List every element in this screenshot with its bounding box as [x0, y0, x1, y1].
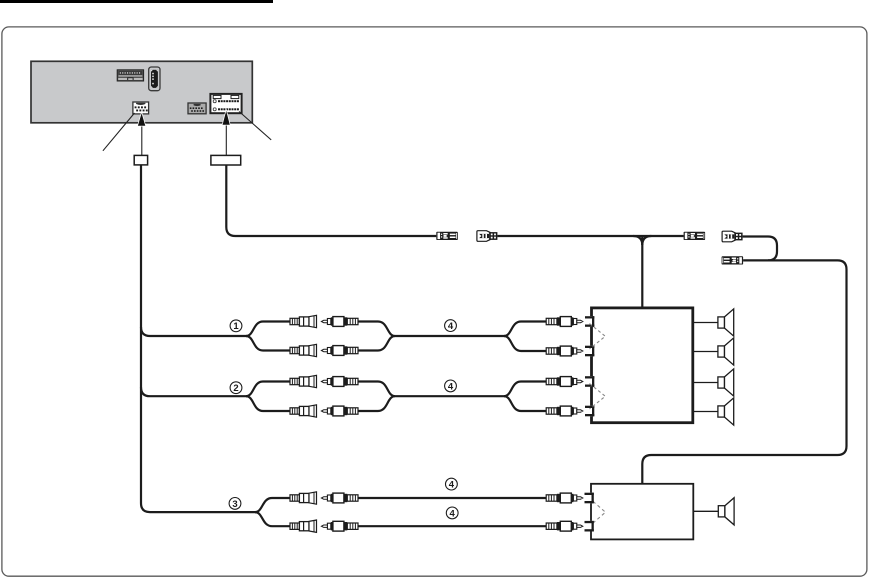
svg-text:1: 1: [233, 321, 239, 332]
svg-text:4: 4: [449, 480, 455, 491]
svg-text:2: 2: [233, 383, 238, 394]
svg-text:4: 4: [448, 381, 454, 392]
svg-text:4: 4: [450, 508, 456, 519]
svg-text:4: 4: [448, 321, 454, 332]
svg-text:3: 3: [232, 499, 237, 510]
